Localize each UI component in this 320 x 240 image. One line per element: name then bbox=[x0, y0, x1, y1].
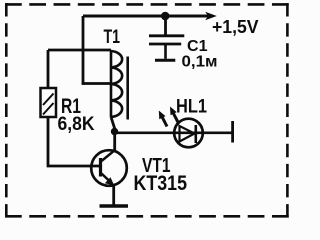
resistor R1 bbox=[41, 88, 57, 117]
border frame (dashed) bbox=[5, 3, 289, 218]
terminal contact bar bbox=[231, 121, 234, 143]
LED HL1 triangle anode bbox=[180, 126, 195, 142]
svg-text:T1: T1 bbox=[104, 26, 121, 48]
transistor VT1 collector bbox=[102, 150, 115, 161]
wire R1 bottom to base bbox=[48, 117, 99, 166]
wire top rail bbox=[83, 15, 208, 18]
wire left branch vertical from rail bbox=[82, 16, 85, 85]
wire winding bottom to node B bbox=[111, 117, 115, 132]
arrow +1,5V supply bbox=[205, 12, 217, 21]
wire node B to LED bbox=[115, 131, 233, 134]
ground bar under C1 bbox=[155, 59, 175, 62]
transistor VT1 circle bbox=[91, 150, 127, 186]
wire from node A down to C1 bbox=[164, 16, 167, 35]
wire tap to transformer T1 bbox=[82, 82, 111, 85]
wire R1 top bbox=[47, 50, 50, 88]
svg-text:+1,5V: +1,5V bbox=[212, 17, 259, 37]
LED HL1 cathode bar bbox=[195, 125, 198, 143]
LED light arrow 1 bbox=[170, 107, 178, 124]
wire collector to node B bbox=[113, 132, 116, 152]
LED HL1 circle bbox=[174, 119, 203, 148]
node junction dot A bbox=[161, 12, 170, 21]
transformer T1 winding bbox=[111, 50, 122, 117]
wire top to transformer and R1 bbox=[48, 49, 111, 52]
node junction dot B bbox=[111, 128, 118, 135]
svg-text:0,1м: 0,1м bbox=[182, 54, 218, 71]
capacitor C1 bbox=[149, 36, 184, 59]
svg-text:HL1: HL1 bbox=[176, 97, 207, 118]
svg-text:C1: C1 bbox=[187, 38, 208, 55]
transistor VT1 base bar bbox=[99, 158, 102, 177]
LED light arrow 2 bbox=[159, 111, 167, 127]
ground bar under emitter bbox=[100, 204, 129, 207]
transistor VT1 emitter with arrow bbox=[102, 174, 115, 186]
svg-text:KT315: KT315 bbox=[134, 172, 188, 195]
svg-text:6,8K: 6,8K bbox=[58, 114, 95, 135]
wire emitter down bbox=[112, 186, 115, 205]
transformer T1 core bbox=[126, 57, 129, 120]
